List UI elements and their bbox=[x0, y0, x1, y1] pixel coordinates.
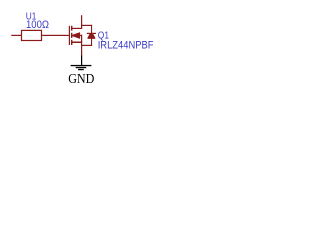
transistor Q1 bulk connection bbox=[74, 35, 82, 36]
body diode triangle bbox=[88, 34, 95, 38]
body diode cathode bar bbox=[87, 33, 96, 34]
transistor Q1 drain pin bbox=[81, 15, 82, 29]
resistor U1 bbox=[22, 30, 42, 40]
transistor Q1 drain connection bbox=[71, 28, 82, 29]
transistor Q1 source pin bbox=[81, 35, 82, 56]
transistor Q1 channel segment middle bbox=[71, 33, 72, 38]
wire bbox=[42, 35, 69, 36]
transistor Q1 source connection bbox=[71, 42, 82, 44]
transistor Q1 channel segment top bbox=[71, 26, 72, 31]
transistor Q1 bulk arrow bbox=[72, 33, 79, 38]
body diode anode connection bbox=[82, 45, 92, 46]
label U1 bbox=[26, 11, 37, 23]
label 100Ω bbox=[26, 19, 49, 31]
body diode vertical lead bbox=[91, 25, 92, 46]
wire bbox=[11, 35, 21, 36]
transistor Q1 gate bar bbox=[69, 26, 70, 45]
ground bbox=[71, 55, 92, 70]
svg-text:100Ω: 100Ω bbox=[26, 19, 49, 31]
transistor Q1 channel segment bottom bbox=[71, 40, 72, 45]
body diode top connection bbox=[81, 25, 92, 26]
label GND bbox=[68, 71, 94, 86]
svg-text:GND: GND bbox=[68, 71, 94, 86]
label Q1 bbox=[98, 31, 109, 42]
svg-text:IRLZ44NPBF: IRLZ44NPBF bbox=[98, 39, 154, 51]
label IRLZ44NPBF bbox=[98, 39, 154, 51]
